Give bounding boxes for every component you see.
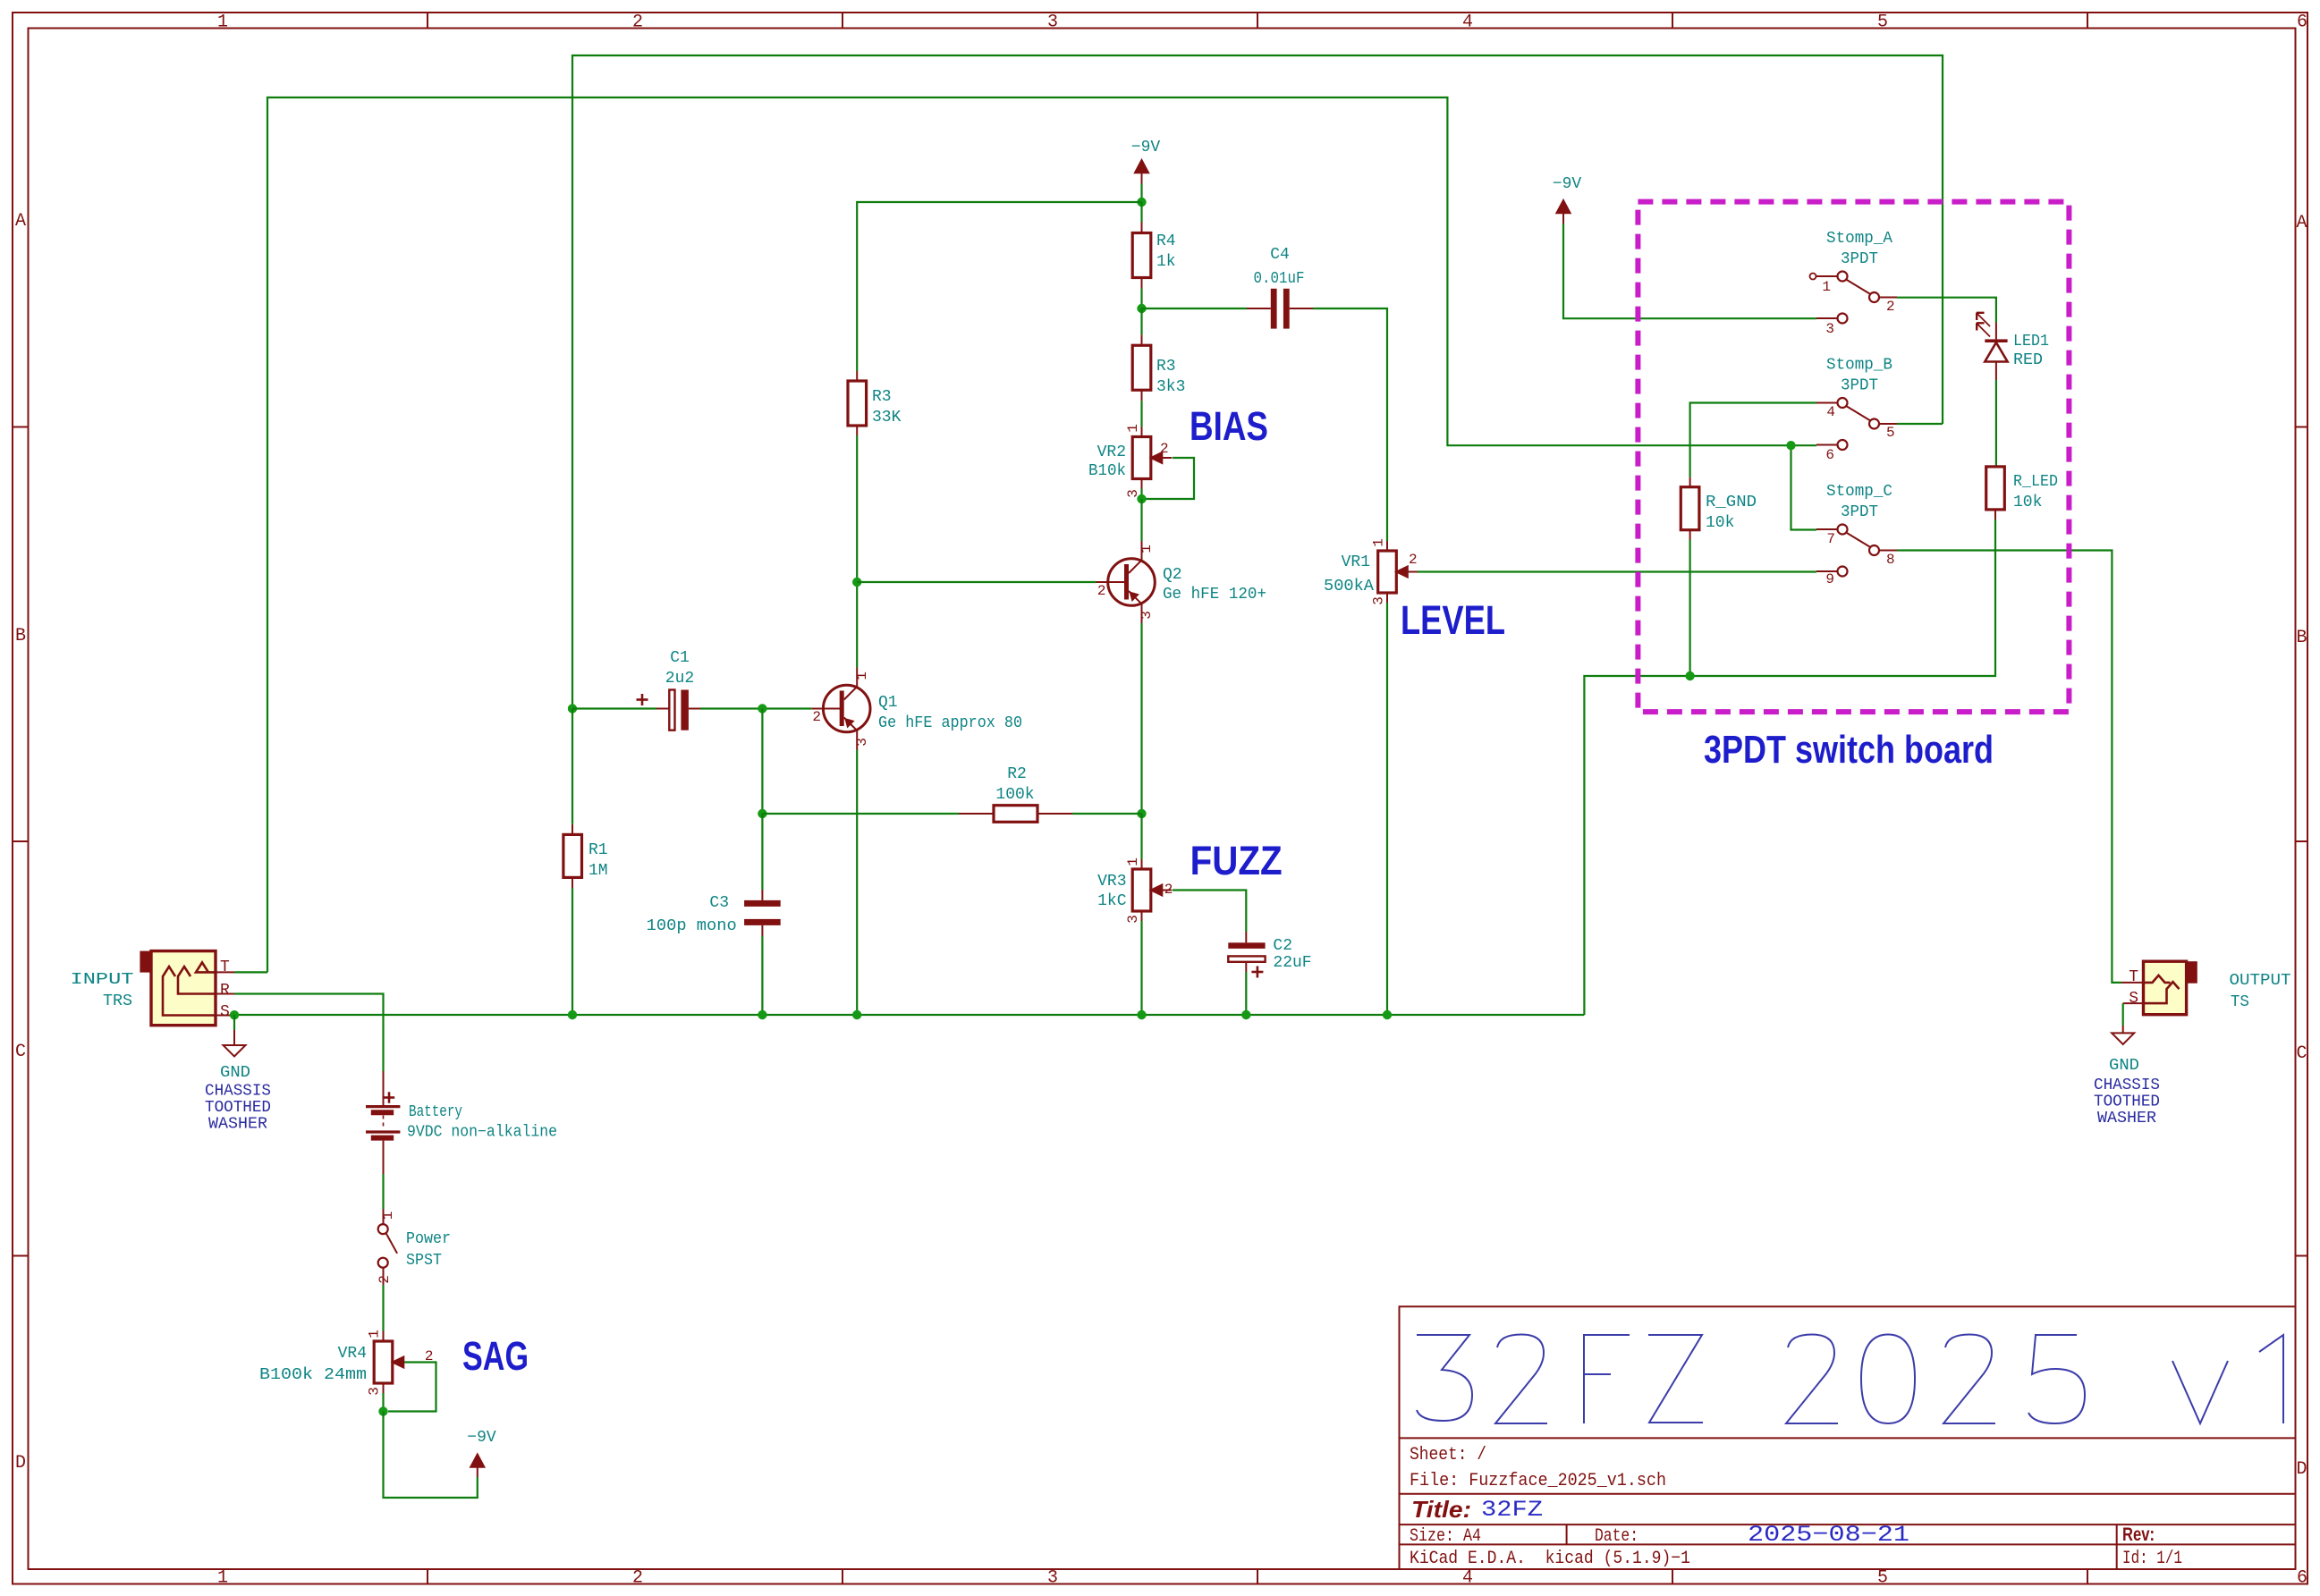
svg-text:2025−08−21: 2025−08−21 — [1748, 1522, 1909, 1548]
svg-text:4: 4 — [1462, 13, 1473, 33]
svg-text:8: 8 — [1886, 552, 1895, 568]
frame column ticks — [427, 13, 428, 29]
power symbol -9V 3PDT — [1556, 200, 1571, 214]
capacitor C2 22uF — [1228, 942, 1265, 949]
svg-text:2: 2 — [1164, 882, 1173, 898]
svg-text:TS: TS — [2231, 993, 2249, 1011]
wire input T to top bus 2 — [234, 971, 267, 973]
wire VR3 wiper to C2 — [1173, 891, 1246, 933]
capacitor C1 2u2 — [572, 707, 656, 709]
junction C1 / R1 / top bus 1 — [568, 704, 577, 713]
svg-text:5: 5 — [1886, 425, 1895, 441]
svg-text:3: 3 — [1371, 596, 1387, 605]
svg-text:Rev:: Rev: — [2122, 1524, 2155, 1545]
svg-text:Sheet: /: Sheet: / — [1410, 1445, 1486, 1465]
svg-text:1: 1 — [1822, 279, 1831, 295]
ground bus wire — [234, 1014, 1584, 1016]
wire VR4 wiper loop — [388, 1363, 436, 1412]
svg-text:2: 2 — [632, 13, 643, 33]
output jack TS — [2144, 961, 2187, 1015]
svg-text:R1: R1 — [588, 841, 608, 859]
svg-text:S: S — [220, 1003, 230, 1021]
svg-text:TOOTHED: TOOTHED — [205, 1099, 271, 1117]
svg-text:R: R — [220, 982, 230, 1000]
junction R4 / C4 / R3 node — [1137, 304, 1146, 313]
wire switch to VR4 — [382, 1285, 384, 1331]
ground symbol output — [2122, 1003, 2124, 1026]
svg-text:BIAS: BIAS — [1190, 403, 1268, 449]
junction pin6/pin7 branch — [1786, 441, 1795, 450]
svg-text:Power: Power — [406, 1230, 451, 1248]
3PDT switch board dashed box — [1638, 202, 2069, 713]
svg-text:LEVEL: LEVEL — [1401, 597, 1505, 643]
svg-text:Q1: Q1 — [878, 694, 898, 712]
svg-text:SAG: SAG — [462, 1333, 529, 1379]
svg-text:C: C — [2296, 1043, 2307, 1064]
frame row ticks — [13, 426, 29, 428]
junction Q1 emitter on ground bus — [852, 1010, 861, 1019]
wire R3-33K to Q1 collector — [856, 435, 858, 668]
svg-text:VR1: VR1 — [1342, 553, 1370, 571]
resistor R1 1M — [572, 709, 573, 824]
svg-text:INPUT: INPUT — [71, 971, 134, 989]
svg-text:3k3: 3k3 — [1156, 378, 1185, 396]
junction VR4 output node — [378, 1406, 387, 1415]
svg-text:3: 3 — [367, 1387, 383, 1396]
svg-text:C4: C4 — [1270, 246, 1290, 264]
switch Stomp_B 3PDT — [1838, 398, 1848, 408]
svg-text:B10k: B10k — [1088, 462, 1126, 480]
svg-text:File: Fuzzface_2025_v1.sch: File: Fuzzface_2025_v1.sch — [1410, 1471, 1666, 1491]
junction -9V / R4 / R3-33K net — [1137, 198, 1146, 207]
junction Q1 base / R2 branch — [758, 704, 766, 713]
junction VR3 on ground bus — [1137, 1010, 1146, 1019]
switch Stomp_A 3PDT — [1838, 272, 1848, 282]
svg-text:3: 3 — [1047, 13, 1058, 33]
wire R_LED bottom to ground bus riser — [1584, 519, 1995, 1015]
junction C3 on ground bus — [758, 1010, 766, 1019]
svg-text:R_LED: R_LED — [2013, 473, 2058, 491]
wire input R to battery — [234, 994, 384, 1072]
svg-text:1: 1 — [367, 1330, 383, 1338]
input jack TRS — [140, 951, 152, 973]
svg-text:A: A — [15, 211, 26, 232]
junction input S on ground bus — [230, 1010, 239, 1019]
junction R2 left / C3 branch — [758, 809, 766, 818]
svg-text:5: 5 — [1877, 1568, 1888, 1589]
svg-text:33K: 33K — [872, 409, 902, 426]
svg-text:1: 1 — [1125, 424, 1141, 433]
svg-text:B100k 24mm: B100k 24mm — [259, 1366, 367, 1384]
wire R4 node to R3-33K — [857, 202, 1141, 371]
svg-text:3PDT: 3PDT — [1841, 503, 1878, 521]
svg-text:T: T — [220, 958, 230, 976]
svg-text:32FZ: 32FZ — [1481, 1497, 1543, 1523]
svg-text:KiCad E.D.A. kicad (5.1.9)−1: KiCad E.D.A. kicad (5.1.9)−1 — [1410, 1549, 1690, 1569]
svg-text:−9V: −9V — [1131, 139, 1161, 156]
svg-text:OUTPUT: OUTPUT — [2230, 972, 2291, 990]
svg-text:10k: 10k — [2013, 494, 2042, 511]
svg-text:10k: 10k — [1706, 514, 1734, 532]
svg-text:1: 1 — [854, 671, 870, 680]
switch SW1 Power SPST — [383, 1209, 385, 1224]
svg-text:3: 3 — [1825, 321, 1834, 337]
svg-text:TOOTHED: TOOTHED — [2094, 1094, 2160, 1111]
LED LED1 RED — [1995, 323, 1997, 339]
wire C4 to VR1 top — [1313, 308, 1387, 541]
svg-text:2: 2 — [1097, 583, 1106, 599]
svg-text:100k: 100k — [995, 786, 1034, 804]
svg-text:5: 5 — [1877, 13, 1888, 33]
svg-text:3PDT: 3PDT — [1841, 250, 1878, 268]
svg-text:FUZZ: FUZZ — [1190, 838, 1283, 883]
svg-text:4: 4 — [1462, 1568, 1473, 1589]
svg-text:D: D — [15, 1453, 26, 1474]
LED arrows — [1977, 314, 1990, 326]
wire Q2 emitter to R2 node — [1140, 623, 1142, 814]
svg-text:4: 4 — [1826, 404, 1835, 420]
svg-text:Stomp_B: Stomp_B — [1826, 357, 1892, 375]
wire VR2 pin3 to node — [1141, 479, 1143, 489]
svg-text:R3: R3 — [1156, 358, 1176, 376]
svg-text:Battery: Battery — [409, 1103, 462, 1121]
svg-text:C: C — [15, 1042, 26, 1062]
junction Q1 collector / Q2 base — [852, 578, 861, 587]
svg-text:R4: R4 — [1156, 232, 1176, 250]
switch Stomp_C 3PDT — [1838, 525, 1848, 535]
svg-text:9VDC non−alkaline: 9VDC non−alkaline — [407, 1124, 557, 1142]
transistor Q2 — [1108, 559, 1156, 606]
resistor R_GND 10k — [1689, 477, 1691, 487]
wire VR2 wiper loop — [1142, 458, 1194, 499]
svg-text:Title:: Title: — [1411, 1496, 1471, 1523]
wire R_GND top to Stomp_B pin4 — [1690, 403, 1816, 477]
svg-text:SPST: SPST — [406, 1252, 442, 1270]
junction VR2 / Q2 collector node — [1137, 494, 1146, 503]
svg-text:2: 2 — [812, 709, 821, 725]
svg-text:6: 6 — [2297, 13, 2307, 33]
wire VR1 pin3 to ground bus — [1386, 593, 1388, 603]
junction C2 on ground bus — [1241, 1010, 1250, 1019]
svg-text:2: 2 — [377, 1275, 393, 1284]
transistor Q1 — [823, 685, 870, 732]
wire Stomp_A pin2 to LED1 anode — [1897, 298, 1996, 323]
wire junction to Q2 base — [857, 581, 1096, 583]
svg-text:1kC: 1kC — [1097, 892, 1127, 910]
wire -9V to Stomp_A pin3 — [1563, 224, 1816, 318]
svg-text:Id: 1/1: Id: 1/1 — [2122, 1549, 2182, 1569]
svg-text:CHASSIS: CHASSIS — [205, 1083, 271, 1101]
svg-text:Stomp_A: Stomp_A — [1826, 230, 1892, 248]
svg-text:C3: C3 — [709, 894, 729, 912]
potentiometer VR2 — [1141, 427, 1143, 437]
svg-text:2: 2 — [1886, 299, 1895, 315]
svg-text:1k: 1k — [1156, 253, 1176, 271]
svg-text:1: 1 — [380, 1212, 396, 1220]
capacitor C4 — [1142, 308, 1248, 309]
wire branch junction to Stomp_C pin7 — [1791, 445, 1817, 529]
svg-text:Date:: Date: — [1595, 1526, 1638, 1547]
power symbol -9V top — [1135, 160, 1149, 173]
svg-text:0.01uF: 0.01uF — [1254, 270, 1305, 288]
potentiometer VR3 FUZZ — [1140, 814, 1142, 859]
svg-text:RED: RED — [2013, 351, 2043, 369]
wire Q1 emitter to ground bus — [856, 750, 858, 1016]
wire C3 node down — [761, 814, 763, 890]
resistor R3 3k3 — [1140, 308, 1142, 334]
wire R_GND bottom to LED resistor net — [1689, 540, 1690, 677]
svg-text:GND: GND — [220, 1064, 250, 1082]
wire VR3 pin3 to ground bus — [1141, 911, 1143, 921]
svg-text:3: 3 — [854, 738, 870, 747]
svg-text:C1: C1 — [670, 649, 690, 667]
battery BT1 9VDC — [383, 1071, 385, 1105]
svg-text:1: 1 — [1125, 857, 1141, 866]
wire Stomp_C pin8 to output jack T — [1897, 551, 2121, 983]
svg-text:3PDT: 3PDT — [1841, 377, 1878, 395]
svg-text:2u2: 2u2 — [665, 670, 694, 688]
svg-text:500kA: 500kA — [1324, 578, 1374, 595]
svg-text:WASHER: WASHER — [208, 1116, 267, 1134]
wire battery to power switch — [382, 1174, 384, 1209]
svg-text:T: T — [2129, 968, 2138, 986]
svg-text:R2: R2 — [1007, 765, 1027, 783]
svg-text:R3: R3 — [872, 388, 892, 406]
svg-text:6: 6 — [2297, 1568, 2307, 1589]
svg-text:Ge hFE 120+: Ge hFE 120+ — [1163, 586, 1266, 604]
resistor R_LED 10k — [1994, 466, 1996, 468]
svg-text:2: 2 — [1160, 441, 1169, 457]
junction R2 right / VR3 top — [1137, 809, 1146, 818]
svg-text:LED1: LED1 — [2013, 333, 2049, 350]
svg-text:1: 1 — [217, 13, 228, 33]
svg-text:1: 1 — [1139, 545, 1155, 553]
svg-text:22uF: 22uF — [1273, 954, 1311, 972]
svg-text:Size: A4: Size: A4 — [1410, 1526, 1481, 1547]
big title 32FZ 2025 v1 — [1417, 1335, 1472, 1421]
svg-text:1: 1 — [1371, 538, 1387, 547]
wire C1 to Q1 base — [700, 707, 811, 709]
svg-text:VR4: VR4 — [338, 1345, 367, 1363]
svg-text:1M: 1M — [588, 862, 608, 880]
potentiometer VR1 LEVEL — [1386, 541, 1388, 551]
wire Stomp_B pin5 to top bus 1 — [1897, 423, 1943, 425]
junction VR1 on ground bus — [1383, 1010, 1392, 1019]
svg-text:B: B — [15, 626, 26, 646]
ground symbol input — [233, 1015, 235, 1030]
svg-text:CHASSIS: CHASSIS — [2094, 1077, 2160, 1094]
resistor R2 100k horizontal — [762, 813, 959, 815]
wire -9V to R4 — [1140, 184, 1142, 203]
wire net input T to Stomp_B pin6 (top bus 2) — [267, 97, 1816, 972]
svg-text:2: 2 — [1409, 552, 1418, 568]
svg-text:Q2: Q2 — [1163, 566, 1182, 584]
wire VR4 pin3 to junction — [383, 1383, 385, 1393]
svg-text:3PDT switch board: 3PDT switch board — [1704, 728, 1994, 772]
svg-text:TRS: TRS — [103, 992, 132, 1010]
wire SAG node to -9V power — [384, 1412, 478, 1499]
svg-text:3: 3 — [1047, 1568, 1058, 1589]
junction R_GND bottom — [1685, 671, 1694, 680]
svg-text:2: 2 — [632, 1568, 643, 1589]
svg-text:−9V: −9V — [1553, 175, 1582, 193]
capacitor C3 100p — [761, 890, 763, 900]
wire VR1 wiper to Stomp_C pin9 — [1418, 570, 1817, 572]
svg-text:VR2: VR2 — [1097, 443, 1126, 461]
svg-text:WASHER: WASHER — [2097, 1110, 2156, 1127]
svg-text:A: A — [2296, 213, 2307, 233]
svg-text:1: 1 — [217, 1568, 228, 1589]
resistor R3 33K — [856, 371, 858, 381]
svg-text:9: 9 — [1825, 571, 1834, 587]
svg-text:C2: C2 — [1273, 937, 1292, 955]
svg-text:VR3: VR3 — [1097, 873, 1126, 891]
svg-text:GND: GND — [2109, 1057, 2139, 1075]
wire net C1-left to Stomp_B pin5 (top bus 1) — [572, 55, 1943, 709]
junction R1 on ground bus — [568, 1010, 577, 1019]
svg-text:7: 7 — [1826, 531, 1835, 547]
svg-text:100p mono: 100p mono — [647, 917, 737, 935]
title block frame — [1400, 1306, 2296, 1569]
svg-text:B: B — [2296, 628, 2307, 648]
svg-text:3: 3 — [1139, 611, 1155, 620]
svg-text:D: D — [2296, 1459, 2307, 1480]
svg-text:3: 3 — [1125, 915, 1141, 924]
svg-text:−9V: −9V — [467, 1429, 496, 1447]
resistor R4 — [1140, 202, 1142, 223]
svg-text:Ge hFE approx 80: Ge hFE approx 80 — [878, 714, 1022, 732]
svg-text:R_GND: R_GND — [1706, 494, 1757, 511]
svg-text:Stomp_C: Stomp_C — [1826, 483, 1892, 501]
svg-text:6: 6 — [1825, 447, 1834, 463]
wire node to Q2 collector — [1140, 499, 1142, 541]
wire Q1 base node down to R2 — [761, 709, 763, 815]
power symbol -9V SAG — [477, 1466, 478, 1477]
svg-text:S: S — [2129, 990, 2138, 1008]
potentiometer VR4 SAG — [383, 1331, 385, 1342]
